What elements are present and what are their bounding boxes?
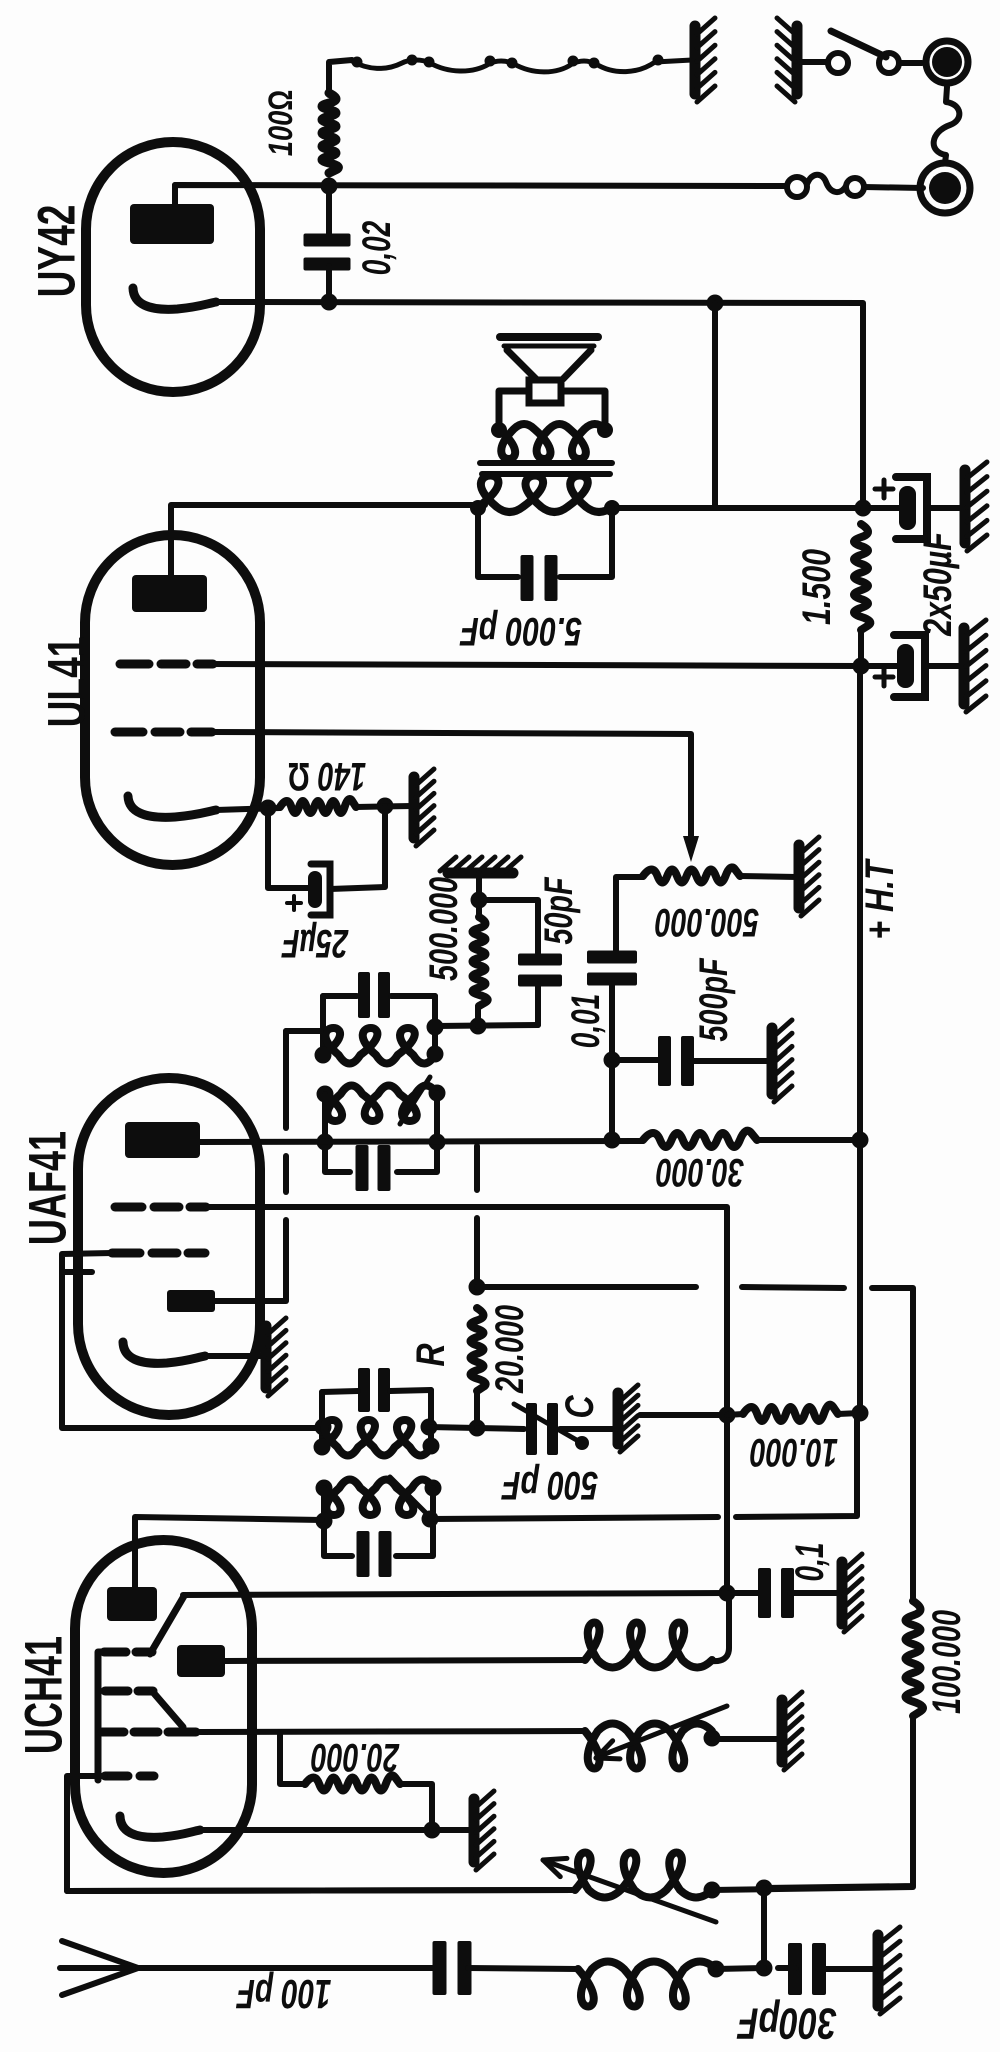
wire C to ground: [560, 1426, 614, 1432]
label 500.000 pot: [655, 900, 759, 944]
resistor 1.500: [854, 524, 870, 630]
IF2 primary cap: [356, 1145, 391, 1191]
junction 20.000 cathode: [424, 1822, 441, 1839]
capacitor 0,01: [587, 951, 637, 986]
speaker voice coil box: [529, 380, 561, 403]
wire R to C: [477, 1428, 524, 1429]
ground electrolytic 1: [965, 462, 987, 551]
tube UY42 anode lead: [172, 185, 178, 204]
junction IF2 sec left: [315, 1047, 332, 1064]
wire 0,01 bottom: [609, 984, 615, 1140]
wire cathode line UY42: [216, 302, 863, 508]
junction 500pF: [604, 1052, 621, 1069]
resistor 100ohm: [322, 93, 338, 173]
label C: [558, 1395, 602, 1419]
svg-text:20.000: 20.000: [311, 1735, 400, 1779]
svg-text:30.000: 30.000: [656, 1150, 744, 1194]
junction heater dot: [485, 56, 496, 67]
wire 20.000 left lead: [280, 1732, 305, 1784]
IF2 secondary box top: [323, 993, 435, 999]
ground cathode UL41: [414, 769, 434, 846]
wire UCH41 g1 left: [67, 1776, 575, 1891]
wire UCH41 anode line: [135, 1517, 322, 1587]
junction screen feed: [719, 1407, 736, 1424]
wire 500pF to ground: [690, 1058, 770, 1064]
wire osc coil1 feed: [712, 1593, 729, 1661]
capacitor electrolytic 2: [894, 635, 925, 697]
coil antenna secondary: [578, 1962, 716, 2007]
plus sign electrolytic 1: [875, 480, 893, 498]
resistor 30.000: [643, 1131, 757, 1147]
wire 30.000 to HT: [757, 1137, 860, 1143]
junction R bottom: [469, 1420, 486, 1437]
wire R bottom: [474, 1391, 480, 1428]
label 0,02: [355, 221, 399, 276]
label 20.000 osc: [311, 1735, 400, 1779]
junction cathode-cap: [321, 294, 338, 311]
wire screen line UL41: [207, 664, 861, 666]
wire fuse to terminal: [864, 187, 923, 188]
svg-text:140 Ω: 140 Ω: [288, 754, 366, 798]
wire HT rail: [857, 666, 863, 1413]
label 300pF: [737, 1999, 837, 2048]
tube UCH41 grid row1: [104, 1648, 152, 1657]
ground antenna: [878, 1927, 900, 2014]
junction cathode left: [260, 800, 277, 817]
label 100.000: [925, 1610, 969, 1714]
wire electrolytic 1 to ground: [928, 505, 963, 511]
junction IF1 sec left: [314, 1439, 331, 1456]
antenna symbol: [60, 1941, 138, 1995]
IF1 secondary box top: [322, 1390, 431, 1392]
junction IF1 sec tap left: [315, 1419, 332, 1436]
resistor 10.000: [743, 1405, 838, 1421]
tube UY42 cathode: [133, 288, 216, 309]
wire 0,1 lead: [727, 1590, 762, 1596]
svg-text:300pF: 300pF: [737, 1999, 837, 2048]
svg-text:500.000: 500.000: [422, 877, 466, 981]
label 10.000: [750, 1430, 838, 1474]
junction primary right: [604, 500, 620, 516]
svg-text:UCH41: UCH41: [15, 1636, 74, 1754]
svg-text:25µF: 25µF: [281, 921, 349, 965]
svg-text:1.500: 1.500: [795, 549, 839, 625]
wire UL41 grid to wiper: [212, 732, 691, 844]
wire 500k bottom lead: [475, 1006, 481, 1026]
wire antenna coil line: [67, 1890, 575, 1891]
speaker coil leads: [499, 391, 605, 426]
junction heater dot: [407, 55, 418, 66]
svg-text:20.000: 20.000: [488, 1305, 532, 1394]
wire 500k top lead: [476, 873, 482, 917]
junction IF2 pri tap right: [429, 1134, 446, 1151]
ground 500pF: [772, 1020, 792, 1102]
IF1 primary box sides: [324, 1488, 433, 1556]
junction IF1 pri left: [316, 1480, 333, 1497]
junction 300pF bottom: [756, 1960, 773, 1977]
svg-text:100 pF: 100 pF: [236, 1971, 332, 2017]
resistor 500.000 vertical: [473, 917, 488, 1006]
wire 140 to ground: [356, 806, 412, 807]
wire to electrolytic 2: [861, 663, 897, 669]
svg-text:2x50µF: 2x50µF: [916, 531, 960, 637]
wire detector tap line: [436, 1025, 538, 1026]
wire pot right to ground: [740, 876, 797, 877]
junction IF1 sec right: [423, 1438, 440, 1455]
label 500pF: [692, 957, 736, 1041]
wire pot left lead: [616, 877, 643, 953]
wire 500pF lead: [612, 1057, 663, 1063]
wire osc grid coil to ground: [704, 1730, 779, 1747]
IF2 primary box sides: [325, 1093, 437, 1172]
wire cap 0,02 bottom lead: [326, 266, 332, 302]
wire IF1 feed: [430, 1413, 857, 1519]
wire 10.000 leads: [727, 1413, 860, 1415]
svg-text:10.000: 10.000: [750, 1430, 838, 1474]
tube UL41 envelope: [85, 535, 260, 865]
label +H.T: [858, 858, 902, 940]
capacitor C trimmer: [526, 1403, 558, 1455]
wire 0,1 to ground: [790, 1590, 840, 1596]
tube UAF41 control grid: [112, 1249, 205, 1258]
resistor potentiometer 500.000: [643, 867, 740, 882]
ground C trimmer: [618, 1385, 638, 1452]
ground electrolytic 2: [964, 620, 986, 712]
resistor 100.000: [906, 1601, 924, 1716]
junction 10.000 HT: [852, 1405, 869, 1422]
svg-text:UY42: UY42: [28, 205, 87, 298]
label 25uF: [281, 921, 349, 965]
junction IF2 pri right: [429, 1085, 446, 1102]
junction IF1 sec tap right: [421, 1419, 438, 1436]
svg-text:100.000: 100.000: [925, 1610, 969, 1714]
resistor R 20.000: [471, 1308, 486, 1391]
wire screen feed line: [640, 1412, 727, 1418]
fuse vertical link: [934, 87, 960, 163]
wire UCH41 cathode line: [200, 1827, 470, 1833]
speaker diaphragm bar: [500, 337, 598, 346]
wire 300pF vertical: [761, 1888, 767, 1968]
junction IF1 pri tap right: [422, 1511, 439, 1528]
wire 300pF lead: [778, 1965, 796, 1971]
resistor 20.000 osc: [305, 1775, 400, 1790]
arrow antenna tuning: [543, 1858, 716, 1922]
ground UCH41 cathode: [474, 1791, 494, 1870]
svg-text:50pF: 50pF: [537, 876, 581, 944]
fuse S-curve: [807, 175, 846, 192]
IF1 secondary box sides: [322, 1390, 431, 1448]
junction heater dot: [568, 56, 579, 67]
wire 300pF to ground: [818, 1966, 874, 1972]
junction heater dot: [507, 58, 518, 69]
capacitor 0,1: [758, 1568, 794, 1618]
junction secondary left: [491, 422, 507, 438]
wire R top line: [474, 1146, 480, 1287]
wire antenna lead: [138, 1965, 436, 1971]
IF1 primary coil: [324, 1480, 433, 1516]
switch lever: [831, 31, 886, 57]
junction heater dot: [653, 55, 664, 66]
transformer primary coil: [478, 476, 612, 513]
ground UAF41 cathode: [266, 1318, 286, 1396]
tube UL41 control grid: [115, 728, 212, 737]
label UCH41: [15, 1636, 74, 1754]
wire 50pF bottom: [535, 984, 541, 1025]
junction IF2 pri left: [317, 1086, 334, 1103]
capacitor 300pF: [788, 1943, 826, 1995]
transformer secondary coil: [499, 424, 605, 459]
svg-text:100Ω: 100Ω: [262, 90, 300, 156]
ground potentiometer: [799, 837, 819, 916]
capacitor 0,02: [304, 234, 351, 271]
svg-text:500 pF: 500 pF: [501, 1463, 598, 1507]
wire 100.000 bottom: [764, 1716, 913, 1888]
wire coil to 100k: [712, 1887, 913, 1890]
tube UL41 anode lead: [171, 505, 485, 575]
tube UAF41 diode plate: [167, 1290, 215, 1312]
tube UAF41 envelope: [78, 1078, 260, 1415]
resistor 140ohm: [280, 799, 356, 813]
capacitor electrolytic 1: [896, 477, 927, 539]
junction ant sec right: [708, 1961, 725, 1978]
wire IF1 sec tap right line: [429, 1427, 477, 1428]
wire primary feed vertical: [712, 303, 718, 506]
junction cathode right: [377, 798, 394, 815]
junction 30.000 HT: [852, 1132, 869, 1149]
IF1 primary cap: [357, 1531, 392, 1577]
label 30.000: [656, 1150, 744, 1194]
transformer core: [480, 463, 612, 474]
junction R top: [469, 1279, 486, 1296]
junction 50pF branch: [471, 892, 488, 909]
junction heater dot: [352, 57, 363, 68]
wire UAF41 inner stub: [62, 1269, 92, 1275]
wire 25uF left: [268, 808, 310, 888]
wire cathode junction: [216, 808, 280, 810]
tube UCH41 cathode: [120, 1816, 200, 1837]
coil oscillator grid: [585, 1724, 712, 1769]
wire primary right lead: [612, 505, 863, 511]
fuse in mains line circle left: [787, 177, 807, 197]
svg-text:0,01: 0,01: [564, 994, 608, 1049]
junction IF1 pri right: [425, 1480, 442, 1497]
wire anode line UY42: [175, 185, 786, 204]
junction ant coil right: [704, 1882, 721, 1899]
junction primary feed: [707, 295, 724, 312]
terminal plug pin 2: [920, 163, 970, 213]
trimmer arrow: [514, 1404, 589, 1450]
label 0,1: [788, 1543, 832, 1582]
junction IF2 pri tap left: [317, 1134, 334, 1151]
tube UAF41 screen grid: [115, 1203, 206, 1212]
tube UL41 screen grid: [120, 660, 213, 669]
wire electrolytic 2 to ground: [926, 663, 962, 669]
ground 500k resistor top: [440, 857, 521, 873]
label UAF41: [19, 1131, 78, 1245]
junction heater dot: [424, 57, 435, 68]
IF1 tuning arrow: [390, 1477, 428, 1515]
label 140ohm: [288, 754, 366, 798]
wire UAF41 cathode ground lead: [205, 1353, 262, 1359]
tube UAF41 cathode: [123, 1342, 205, 1363]
svg-text:0,02: 0,02: [355, 221, 399, 276]
IF2 secondary cap: [358, 972, 390, 1018]
svg-text:500pF: 500pF: [692, 957, 736, 1041]
wire AVC line: [477, 1287, 913, 1601]
wire junction 100ohm: [321, 178, 338, 195]
ground oscillator: [782, 1692, 802, 1770]
wire 100pF to coil: [468, 1968, 578, 1969]
label 500pF trimmer: [501, 1463, 598, 1507]
label UY42: [28, 205, 87, 298]
coil oscillator anode: [585, 1623, 712, 1668]
tube UL41 cathode: [128, 796, 216, 817]
junction 500k bottom: [470, 1018, 487, 1035]
label 20.000 vertical: [488, 1305, 532, 1394]
tube UY42 envelope: [86, 142, 260, 392]
tube UCH41 triode anode: [177, 1645, 225, 1677]
IF1 secondary cap: [358, 1368, 390, 1412]
wire UCH41 screen line: [183, 1593, 727, 1595]
junction 300pF top: [756, 1880, 773, 1897]
wire 20.000 right lead: [400, 1784, 432, 1830]
label 2x50uF: [916, 531, 960, 637]
capacitor 25uF plus plate: [308, 871, 322, 908]
tube UCH41 screen bracket: [98, 1652, 104, 1780]
wire 1.500 bottom: [858, 630, 864, 666]
tube UCH41 grid row4: [105, 1772, 154, 1781]
label 100pF: [236, 1971, 332, 2017]
wire diode lead: [215, 1298, 286, 1304]
wire IF2 anode line: [200, 1141, 643, 1142]
tube UY42 anode plate: [130, 204, 214, 244]
tube UL41 anode plate: [132, 575, 207, 612]
wire heater chain: [352, 60, 692, 72]
arrow oscillator tuning: [596, 1706, 727, 1759]
svg-text:+ H.T: + H.T: [858, 858, 902, 940]
label R: [409, 1343, 453, 1366]
wire UAF41 screen line: [206, 1207, 727, 1592]
tube UCH41 heptode anode: [107, 1587, 157, 1621]
svg-text:C: C: [558, 1395, 602, 1419]
wire heater top corner: [329, 60, 352, 95]
svg-text:UAF41: UAF41: [19, 1131, 78, 1245]
wire 5000pF box: [478, 508, 612, 577]
IF2 primary coil: [325, 1086, 437, 1122]
tube UCH41 grid row3: [102, 1728, 196, 1737]
label 500.000 vertical: [422, 877, 466, 981]
wire UCH41 screen diagonal: [150, 1596, 184, 1654]
label 1.500: [795, 549, 839, 625]
wire switch to terminal: [899, 60, 922, 66]
junction IF1 pri tap left: [316, 1513, 333, 1530]
switch contact circle 1: [828, 53, 848, 73]
plus sign 25uF: [287, 896, 301, 910]
tube UCH41 envelope: [75, 1540, 252, 1873]
label UL41: [38, 637, 97, 728]
svg-text:500.000: 500.000: [655, 900, 759, 944]
junction 0,01-anode: [604, 1132, 621, 1149]
wire oscillator grid line: [200, 1731, 585, 1732]
fuse in mains line circle right: [846, 178, 864, 196]
junction primary-B+: [855, 500, 872, 517]
capacitor 25uF bracket: [311, 864, 330, 915]
junction screen-HT: [853, 658, 870, 675]
arrow potentiometer wiper: [683, 836, 699, 862]
capacitor 5.000pF: [521, 555, 558, 601]
wire diode line stub: [286, 1028, 321, 1034]
ground heater: [695, 18, 715, 102]
svg-text:R: R: [409, 1343, 453, 1366]
plus sign electrolytic 2: [875, 668, 893, 686]
switch contact circle 2: [879, 53, 899, 73]
tube UAF41 anode plate: [125, 1122, 200, 1158]
IF2 secondary coil: [323, 1028, 435, 1064]
ground mains switch: [777, 18, 797, 102]
wire triode grid diagonal: [152, 1691, 183, 1727]
wire coil4 to 300pF: [716, 1968, 764, 1969]
wire to electrolytic 1: [863, 505, 899, 511]
label 50pF: [537, 876, 581, 944]
wire ground to switch: [800, 59, 827, 65]
capacitor 100pF: [433, 1941, 472, 1995]
junction 0,1: [719, 1585, 736, 1602]
wire 50pF branch: [479, 900, 538, 956]
wire 25uF right: [330, 806, 385, 889]
junction secondary right: [597, 422, 613, 438]
wire UAF41 grid left: [62, 1253, 323, 1428]
ground 0,1: [842, 1554, 862, 1632]
terminal plug pin 1: [926, 41, 968, 83]
label 100ohm: [262, 90, 300, 156]
capacitor 500pF: [658, 1036, 694, 1086]
tube UCH41 grid row2: [105, 1687, 153, 1696]
wire cap 0,02 top lead: [326, 186, 332, 237]
junction heater dot: [589, 58, 600, 69]
svg-text:5.000 pF: 5.000 pF: [459, 609, 582, 653]
wire triode anode line: [225, 1660, 585, 1661]
label 0,01: [564, 994, 608, 1049]
coil antenna primary: [575, 1853, 712, 1898]
junction IF2 sec right: [427, 1046, 444, 1063]
wire diode line vertical: [283, 1031, 289, 1300]
IF2 secondary box sides: [323, 996, 435, 1056]
IF1 secondary coil: [322, 1420, 431, 1456]
speaker cone: [507, 350, 591, 379]
svg-text:UL41: UL41: [38, 637, 97, 728]
capacitor 50pF: [518, 954, 562, 987]
IF2 tuning arrow: [400, 1077, 430, 1124]
junction IF2 sec tap: [427, 1019, 444, 1036]
label 5.000pF: [459, 609, 582, 653]
junction primary left: [470, 500, 486, 516]
svg-text:0,1: 0,1: [788, 1543, 832, 1582]
